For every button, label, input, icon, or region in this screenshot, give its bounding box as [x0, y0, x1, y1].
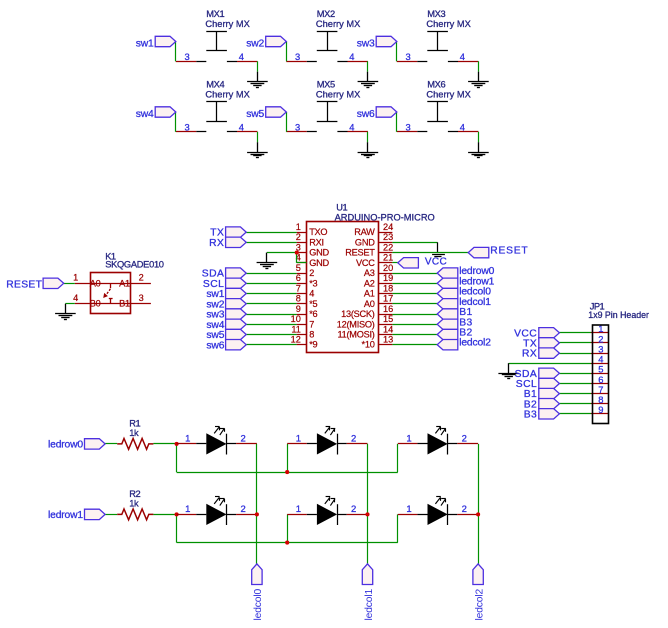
svg-text:20: 20 — [383, 263, 393, 273]
svg-text:13: 13 — [383, 335, 393, 345]
svg-text:3: 3 — [295, 51, 300, 62]
svg-text:RXI: RXI — [309, 237, 324, 247]
svg-text:R1: R1 — [129, 418, 140, 428]
svg-text:3: 3 — [405, 51, 410, 62]
svg-text:Cherry MX: Cherry MX — [205, 89, 249, 99]
svg-text:MX4: MX4 — [206, 80, 224, 90]
svg-text:RESET: RESET — [345, 248, 375, 258]
svg-text:RESET: RESET — [490, 245, 528, 256]
svg-text:21: 21 — [383, 253, 393, 263]
svg-text:GND: GND — [309, 258, 329, 268]
svg-text:12: 12 — [291, 335, 301, 345]
svg-text:MX5: MX5 — [317, 80, 335, 90]
svg-text:A0: A0 — [364, 299, 375, 309]
svg-text:22: 22 — [383, 242, 393, 252]
svg-text:*6: *6 — [309, 309, 317, 319]
svg-text:4: 4 — [309, 289, 314, 299]
svg-text:MX2: MX2 — [317, 9, 335, 19]
svg-text:2: 2 — [462, 434, 467, 445]
svg-text:ledcol1: ledcol1 — [364, 588, 375, 620]
svg-text:sw4: sw4 — [136, 109, 154, 120]
svg-text:1k: 1k — [129, 499, 139, 509]
svg-text:ledrow0: ledrow0 — [48, 440, 83, 451]
svg-text:1: 1 — [296, 434, 301, 445]
svg-text:A1: A1 — [364, 289, 375, 299]
svg-text:11: 11 — [291, 324, 301, 334]
svg-text:12(MISO): 12(MISO) — [337, 319, 375, 329]
svg-text:ledcol2: ledcol2 — [474, 588, 485, 620]
svg-text:4: 4 — [239, 51, 244, 62]
svg-text:13(SCK): 13(SCK) — [341, 309, 375, 319]
svg-text:3: 3 — [139, 293, 144, 303]
svg-text:7: 7 — [309, 319, 314, 329]
svg-text:MX1: MX1 — [206, 9, 224, 19]
svg-text:ledcol0: ledcol0 — [253, 588, 264, 620]
svg-text:9: 9 — [598, 404, 603, 415]
svg-text:18: 18 — [383, 283, 393, 293]
svg-text:A1: A1 — [119, 278, 130, 288]
svg-text:23: 23 — [383, 232, 393, 242]
svg-text:B3: B3 — [524, 409, 538, 420]
svg-text:1: 1 — [185, 434, 190, 445]
svg-text:R2: R2 — [129, 489, 140, 499]
svg-text:2: 2 — [309, 268, 314, 278]
svg-text:4: 4 — [73, 293, 78, 303]
svg-text:6: 6 — [296, 273, 301, 283]
svg-text:4: 4 — [460, 51, 465, 62]
svg-text:15: 15 — [383, 314, 393, 324]
svg-text:4: 4 — [349, 51, 354, 62]
svg-text:MX6: MX6 — [427, 80, 445, 90]
svg-text:B1: B1 — [119, 299, 130, 309]
svg-text:Cherry MX: Cherry MX — [426, 89, 470, 99]
svg-text:GND: GND — [355, 237, 375, 247]
svg-text:2: 2 — [351, 504, 356, 515]
svg-text:TXO: TXO — [309, 227, 327, 237]
svg-text:sw3: sw3 — [357, 38, 375, 49]
svg-text:sw1: sw1 — [136, 38, 154, 49]
svg-text:2: 2 — [240, 434, 245, 445]
svg-text:2: 2 — [351, 434, 356, 445]
svg-text:*5: *5 — [309, 299, 317, 309]
svg-text:sw5: sw5 — [246, 109, 264, 120]
svg-text:B0: B0 — [90, 299, 101, 309]
svg-text:3: 3 — [295, 121, 300, 132]
svg-text:11(MOSI): 11(MOSI) — [337, 330, 374, 340]
svg-text:3: 3 — [405, 121, 410, 132]
svg-text:ledcol2: ledcol2 — [459, 338, 491, 349]
svg-text:U1: U1 — [336, 203, 347, 213]
svg-text:1: 1 — [406, 504, 411, 515]
svg-text:3: 3 — [184, 51, 189, 62]
svg-text:19: 19 — [383, 273, 393, 283]
svg-text:2: 2 — [296, 232, 301, 242]
svg-text:4: 4 — [349, 121, 354, 132]
svg-text:Cherry MX: Cherry MX — [316, 89, 360, 99]
svg-text:Cherry MX: Cherry MX — [316, 19, 360, 29]
svg-text:MX3: MX3 — [427, 9, 445, 19]
svg-text:2: 2 — [139, 273, 144, 283]
svg-text:2: 2 — [240, 504, 245, 515]
svg-text:16: 16 — [383, 304, 393, 314]
svg-text:*10: *10 — [362, 340, 375, 350]
svg-text:A0: A0 — [90, 278, 101, 288]
svg-text:10: 10 — [291, 314, 301, 324]
svg-text:*9: *9 — [309, 340, 317, 350]
svg-text:sw6: sw6 — [357, 109, 375, 120]
svg-text:14: 14 — [383, 324, 393, 334]
svg-text:SKQGADE010: SKQGADE010 — [105, 260, 164, 270]
svg-text:A2: A2 — [364, 278, 375, 288]
svg-text:sw2: sw2 — [246, 38, 264, 49]
svg-text:RESET: RESET — [6, 280, 42, 291]
svg-text:1: 1 — [406, 434, 411, 445]
svg-text:5: 5 — [296, 263, 301, 273]
svg-text:1x9 Pin Header: 1x9 Pin Header — [588, 310, 649, 320]
svg-text:1: 1 — [296, 504, 301, 515]
svg-text:sw6: sw6 — [206, 340, 224, 351]
svg-text:4: 4 — [239, 121, 244, 132]
svg-text:Cherry MX: Cherry MX — [426, 19, 470, 29]
svg-text:24: 24 — [383, 222, 393, 232]
svg-text:7: 7 — [296, 283, 301, 293]
svg-text:2: 2 — [462, 504, 467, 515]
svg-text:1k: 1k — [129, 428, 139, 438]
svg-text:A3: A3 — [364, 268, 375, 278]
svg-text:VCC: VCC — [356, 258, 375, 268]
svg-text:1: 1 — [73, 273, 78, 283]
svg-text:1: 1 — [296, 222, 301, 232]
svg-text:GND: GND — [309, 248, 329, 258]
svg-text:8: 8 — [296, 294, 301, 304]
svg-text:ledrow1: ledrow1 — [48, 510, 83, 521]
svg-text:9: 9 — [296, 304, 301, 314]
svg-text:ARDUINO-PRO-MICRO: ARDUINO-PRO-MICRO — [335, 212, 435, 222]
svg-text:RAW: RAW — [354, 227, 375, 237]
svg-text:RX: RX — [209, 238, 224, 249]
svg-text:3: 3 — [184, 121, 189, 132]
svg-text:Cherry MX: Cherry MX — [205, 19, 249, 29]
svg-text:8: 8 — [309, 330, 314, 340]
svg-text:*3: *3 — [309, 278, 317, 288]
svg-text:1: 1 — [185, 504, 190, 515]
svg-text:17: 17 — [383, 294, 393, 304]
svg-text:RX: RX — [522, 349, 537, 360]
svg-text:4: 4 — [460, 121, 465, 132]
svg-text:VCC: VCC — [425, 257, 447, 268]
